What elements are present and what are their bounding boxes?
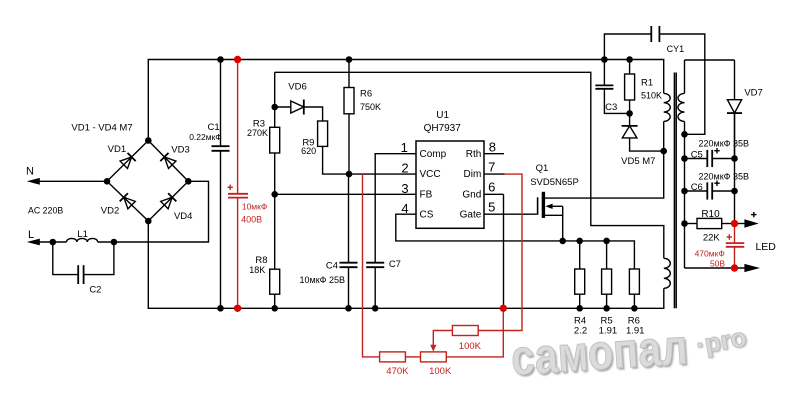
svg-text:C5: C5 [691, 149, 703, 160]
svg-text:L1: L1 [77, 229, 88, 240]
svg-text:VD5 M7: VD5 M7 [621, 156, 655, 167]
svg-text:1: 1 [401, 140, 408, 155]
svg-text:10мкФ 25В: 10мкФ 25В [300, 275, 346, 285]
svg-text:0.22мкФ: 0.22мкФ [189, 132, 222, 142]
svg-text:VD7: VD7 [744, 88, 762, 99]
svg-text:7: 7 [488, 159, 495, 174]
svg-text:N: N [26, 165, 34, 177]
svg-text:Q1: Q1 [536, 163, 549, 174]
svg-text:VD6: VD6 [288, 82, 306, 93]
svg-text:VD3: VD3 [171, 145, 189, 156]
svg-text:VD1 - VD4 M7: VD1 - VD4 M7 [71, 123, 132, 134]
svg-text:50В: 50В [710, 259, 725, 269]
svg-text:CS: CS [420, 210, 434, 221]
svg-text:C7: C7 [389, 259, 401, 270]
svg-text:VCC: VCC [420, 169, 441, 180]
svg-text:FB: FB [420, 190, 433, 201]
svg-text:VD2: VD2 [101, 206, 119, 217]
svg-text:U1: U1 [436, 110, 449, 121]
svg-text:2.2: 2.2 [574, 326, 587, 337]
svg-text:SVD5N65P: SVD5N65P [530, 177, 579, 188]
svg-text:750K: 750K [360, 102, 381, 112]
svg-text:270K: 270K [247, 128, 268, 138]
svg-text:Dim: Dim [464, 169, 482, 180]
svg-text:Comp: Comp [420, 149, 447, 160]
svg-text:220мкФ 35В: 220мкФ 35В [699, 138, 750, 148]
svg-text:R6: R6 [360, 89, 372, 100]
svg-text:Gate: Gate [460, 210, 482, 221]
svg-text:2: 2 [401, 161, 408, 176]
svg-text:400В: 400В [241, 214, 262, 224]
svg-text:22K: 22K [703, 232, 721, 243]
svg-text:510K: 510K [641, 90, 662, 100]
svg-text:470K: 470K [386, 366, 409, 377]
svg-text:6: 6 [488, 180, 495, 195]
svg-text:100K: 100K [429, 366, 452, 377]
svg-text:CY1: CY1 [667, 44, 685, 54]
svg-text:18K: 18K [249, 265, 265, 275]
svg-text:QH7937: QH7937 [424, 123, 462, 134]
svg-text:AC 220В: AC 220В [28, 206, 63, 216]
svg-text:4: 4 [401, 201, 408, 216]
svg-text:1.91: 1.91 [599, 326, 618, 337]
svg-text:8: 8 [489, 139, 496, 154]
svg-text:620: 620 [301, 146, 316, 156]
svg-text:C6: C6 [691, 182, 703, 193]
svg-text:1.91: 1.91 [626, 326, 645, 337]
svg-text:Gnd: Gnd [462, 190, 481, 201]
svg-text:R1: R1 [641, 78, 653, 89]
svg-text:10мкФ: 10мкФ [242, 201, 267, 211]
svg-text:L: L [28, 229, 34, 241]
svg-text:Rth: Rth [466, 149, 482, 160]
svg-text:220мкФ 35В: 220мкФ 35В [699, 171, 750, 181]
svg-text:3: 3 [401, 181, 408, 196]
svg-text:LED: LED [755, 241, 776, 253]
svg-text:VD1: VD1 [108, 144, 126, 155]
svg-text:100K: 100K [459, 341, 482, 352]
svg-text:C3: C3 [605, 102, 617, 113]
svg-text:VD4: VD4 [174, 211, 192, 222]
svg-text:R10: R10 [701, 209, 720, 220]
svg-text:C2: C2 [89, 285, 101, 296]
svg-text:470мкФ: 470мкФ [695, 248, 725, 258]
svg-text:C4: C4 [326, 260, 338, 271]
svg-text:5: 5 [488, 200, 495, 215]
